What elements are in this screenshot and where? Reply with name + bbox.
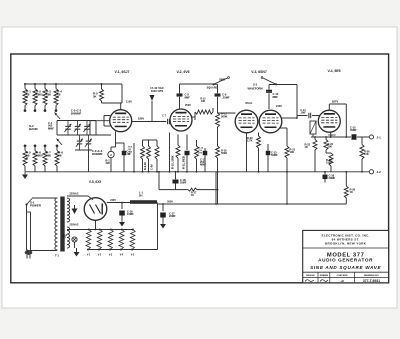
svg-text:DUAL: DUAL — [246, 102, 253, 105]
svg-text:C-7: C-7 — [162, 115, 167, 118]
svg-text:8MF: 8MF — [273, 95, 279, 99]
svg-text:+6: +6 — [340, 279, 344, 283]
svg-text:K: K — [26, 156, 28, 160]
svg-text:J-1: J-1 — [377, 135, 382, 139]
svg-text:K: K — [57, 95, 59, 99]
svg-text:287V: 287V — [332, 100, 338, 104]
svg-text:900MMF: 900MMF — [92, 152, 103, 156]
svg-text:25MF: 25MF — [180, 182, 187, 185]
svg-text:1K: 1K — [305, 145, 308, 149]
svg-text:V-1, 6SJ7: V-1, 6SJ7 — [115, 70, 130, 74]
svg-text:C-5A: C-5A — [150, 164, 154, 170]
svg-text:10K: 10K — [364, 152, 369, 156]
svg-text:240V: 240V — [110, 199, 116, 202]
svg-text:390: 390 — [106, 161, 111, 165]
svg-text:V-5, 6X5: V-5, 6X5 — [89, 180, 101, 184]
svg-text:K: K — [26, 95, 28, 99]
svg-text:V-3, 6SN7: V-3, 6SN7 — [251, 70, 267, 74]
svg-text:BAND: BAND — [29, 127, 38, 131]
svg-text:CHECKED: CHECKED — [337, 275, 348, 277]
svg-text:1500: 1500 — [326, 161, 332, 165]
svg-text:MMF: MMF — [48, 126, 54, 130]
svg-text:K: K — [46, 95, 48, 99]
svg-text:J-2: J-2 — [377, 170, 382, 174]
svg-text:AUDIO GENERATOR: AUDIO GENERATOR — [318, 258, 373, 263]
svg-text:.1MF: .1MF — [300, 112, 306, 115]
svg-text:V-4, 6E5: V-4, 6E5 — [327, 69, 340, 73]
svg-text:2.7K: 2.7K — [247, 139, 253, 143]
svg-text:WAVEFORM: WAVEFORM — [247, 86, 262, 90]
svg-text:10K: 10K — [201, 100, 206, 103]
svg-text:2H: 2H — [139, 193, 142, 197]
svg-text:180V: 180V — [138, 116, 144, 120]
svg-text:68: 68 — [58, 153, 62, 157]
svg-text:200V: 200V — [167, 201, 173, 204]
svg-text:1100 CPS: 1100 CPS — [151, 89, 164, 93]
svg-text:R-10, 500K: R-10, 500K — [171, 155, 175, 169]
svg-text:680: 680 — [46, 153, 51, 157]
svg-text:250V: 250V — [185, 103, 191, 107]
svg-text:10MF: 10MF — [127, 212, 134, 216]
svg-text:360MMF: 360MMF — [71, 111, 82, 115]
svg-text:T-1: T-1 — [55, 254, 59, 258]
svg-text:BROOKLYN, NEW YORK: BROOKLYN, NEW YORK — [325, 242, 367, 246]
svg-text:1K: 1K — [350, 190, 353, 194]
svg-text:50MF: 50MF — [350, 128, 357, 132]
svg-text:0 ACV: 0 ACV — [328, 134, 336, 137]
svg-text:K: K — [36, 95, 38, 99]
svg-text:377-T-6931: 377-T-6931 — [363, 279, 380, 283]
svg-text:1K: 1K — [191, 194, 194, 197]
svg-text:10K: 10K — [290, 150, 295, 154]
svg-text:R-9,1K: R-9,1K — [143, 162, 147, 170]
svg-text:240V: 240V — [276, 104, 282, 108]
svg-text:500K: 500K — [221, 114, 227, 118]
svg-text:50MF: 50MF — [271, 153, 278, 157]
svg-text:POWER: POWER — [30, 204, 42, 208]
svg-text:220VAC: 220VAC — [69, 224, 78, 227]
svg-text:5K: 5K — [93, 94, 97, 98]
svg-text:S-3: S-3 — [253, 83, 258, 87]
svg-text:300: 300 — [328, 145, 333, 149]
svg-text:20MF: 20MF — [329, 176, 336, 180]
svg-text:DRAWN: DRAWN — [320, 274, 329, 277]
svg-text:MMF: MMF — [200, 163, 206, 167]
svg-text:20MF: 20MF — [169, 214, 176, 218]
svg-text:8MF: 8MF — [185, 95, 191, 99]
svg-text:R-11, RED: R-11, RED — [181, 156, 185, 169]
svg-text:V-2, 6V6: V-2, 6V6 — [176, 70, 189, 74]
svg-text:DESIGN: DESIGN — [306, 275, 315, 277]
svg-text:500K: 500K — [221, 151, 227, 155]
svg-text:220VAC: 220VAC — [69, 193, 78, 196]
svg-text:SQUARE: SQUARE — [207, 87, 218, 90]
svg-text:DRAWING NO.: DRAWING NO. — [364, 274, 379, 277]
svg-text:SINE: SINE — [219, 78, 225, 81]
svg-text:110V: 110V — [126, 99, 132, 103]
svg-text:SINE AND SQUARE WAVE: SINE AND SQUARE WAVE — [310, 265, 381, 270]
svg-text:.25MF: .25MF — [222, 95, 230, 99]
